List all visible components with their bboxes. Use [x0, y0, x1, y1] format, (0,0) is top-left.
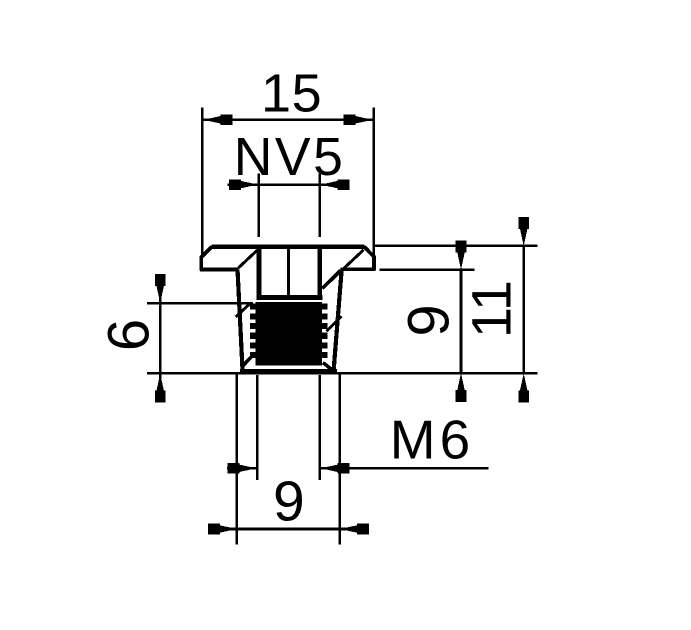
dimension NV5: extension lines: [228, 174, 348, 237]
hex socket walls: [257, 249, 323, 298]
svg-text:NV5: NV5: [234, 128, 346, 187]
thread M6 (black serrated block): [250, 302, 327, 365]
dimension 6: arrows: [155, 274, 166, 303]
dimension M6: arrows: [227, 463, 256, 474]
dimension M6: extension lines: [227, 375, 489, 480]
dimension 6 (left): extension lines: [147, 275, 253, 402]
part: flange top outline: [200, 247, 376, 271]
bottom countersink cone right: [323, 363, 335, 372]
part: bottom face: [240, 369, 337, 374]
dimension 9 (bottom): extension lines: [208, 372, 369, 545]
svg-text:15: 15: [261, 64, 322, 124]
dimension 11 (right): dim line: [522, 246, 525, 373]
svg-text:9: 9: [273, 470, 305, 534]
dimension 15: arrows: [203, 115, 232, 126]
dimension NV5: arrows: [229, 179, 258, 190]
dimension 15: extension lines: [202, 108, 373, 258]
bottom countersink cone left: [242, 355, 254, 367]
svg-text:9: 9: [397, 304, 462, 336]
top-right reference line: [374, 245, 538, 248]
svg-text:11: 11: [460, 280, 523, 338]
mid-right reference line: [380, 268, 475, 271]
dimension 6: dim line: [159, 275, 162, 402]
dimension 15: dim line: [202, 119, 373, 122]
dimension 9 bottom: arrows: [208, 524, 237, 535]
hatch lines (section): [236, 250, 364, 332]
svg-text:M6: M6: [390, 409, 474, 471]
part: body left wall: [235, 270, 244, 370]
part: body right wall: [332, 269, 344, 369]
dimension 9 right: arrows: [456, 241, 467, 270]
dimension 9 bottom: dim line: [208, 528, 369, 531]
dimension M6: dim line pieces: [227, 467, 256, 470]
svg-text:6: 6: [97, 319, 162, 351]
bottom reference line (shared): [147, 372, 537, 375]
dimension 9 (right): dim line: [460, 270, 463, 373]
dimension 11: arrows: [518, 217, 529, 246]
dimension NV5: dim line: [228, 183, 348, 186]
